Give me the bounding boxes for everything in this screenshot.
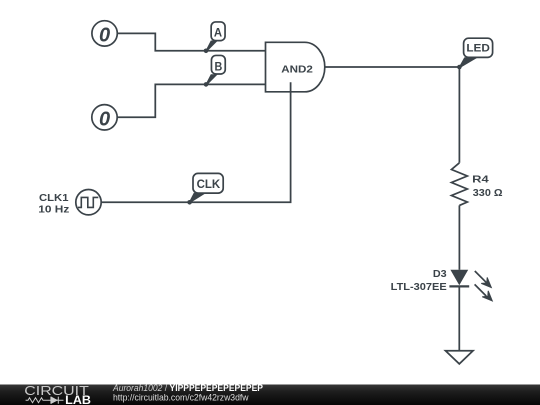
wire net B [117, 84, 265, 117]
svg-text:10 Hz: 10 Hz [38, 205, 69, 216]
digital source V1 (logic 0) [92, 21, 117, 47]
wire net LED (gate output) [325, 67, 460, 163]
LED D3 [449, 270, 469, 287]
svg-text:LAB: LAB [65, 395, 91, 405]
svg-text:CLK1: CLK1 [39, 193, 69, 204]
node label B [206, 55, 226, 85]
node label LED [459, 38, 493, 68]
CircuitLab logo resistor-diode glyph [26, 397, 64, 404]
resistor R4 [452, 163, 468, 206]
label CLK1 10 Hz [38, 193, 69, 216]
wire D3 to ground [458, 288, 460, 351]
svg-text:Aurorah1002 / YIPPPEPEPEPEPEPE: Aurorah1002 / YIPPPEPEPEPEPEPEP [112, 383, 263, 393]
label R4 330 ohm [472, 175, 502, 200]
node LED junction dot [457, 65, 462, 70]
svg-text:R4: R4 [472, 175, 489, 186]
CircuitLab logo wordmark [24, 384, 91, 405]
svg-text:B: B [215, 59, 223, 73]
footer bar [0, 385, 540, 405]
svg-text:330 Ω: 330 Ω [473, 188, 503, 199]
ground [446, 351, 474, 364]
svg-text:LTL-307EE: LTL-307EE [391, 282, 447, 293]
digital source V2 (logic 0) [92, 105, 117, 131]
light emission arrows [475, 271, 496, 304]
node B junction dot [204, 82, 209, 87]
svg-text:AND2: AND2 [281, 63, 313, 75]
wire net CLK [102, 82, 291, 202]
wire R4 to D3 [458, 205, 460, 269]
svg-text:D3: D3 [433, 269, 447, 280]
clock source CLK1 [76, 190, 101, 215]
node label A [206, 22, 225, 52]
wire net A [118, 33, 266, 50]
node CLK junction dot [187, 200, 192, 205]
svg-text:A: A [214, 26, 223, 40]
node A junction dot [204, 49, 209, 54]
svg-text:LED: LED [466, 43, 490, 55]
svg-text:CLK: CLK [197, 179, 221, 191]
svg-text:0: 0 [99, 24, 110, 46]
AND gate AND2 [266, 42, 325, 92]
node label CLK [189, 173, 223, 202]
footer attribution text [112, 383, 263, 403]
svg-text:http://circuitlab.com/c2fw42rz: http://circuitlab.com/c2fw42rzw3dfw [113, 393, 249, 403]
label D3 LTL-307EE [391, 269, 447, 293]
svg-text:0: 0 [99, 108, 110, 130]
